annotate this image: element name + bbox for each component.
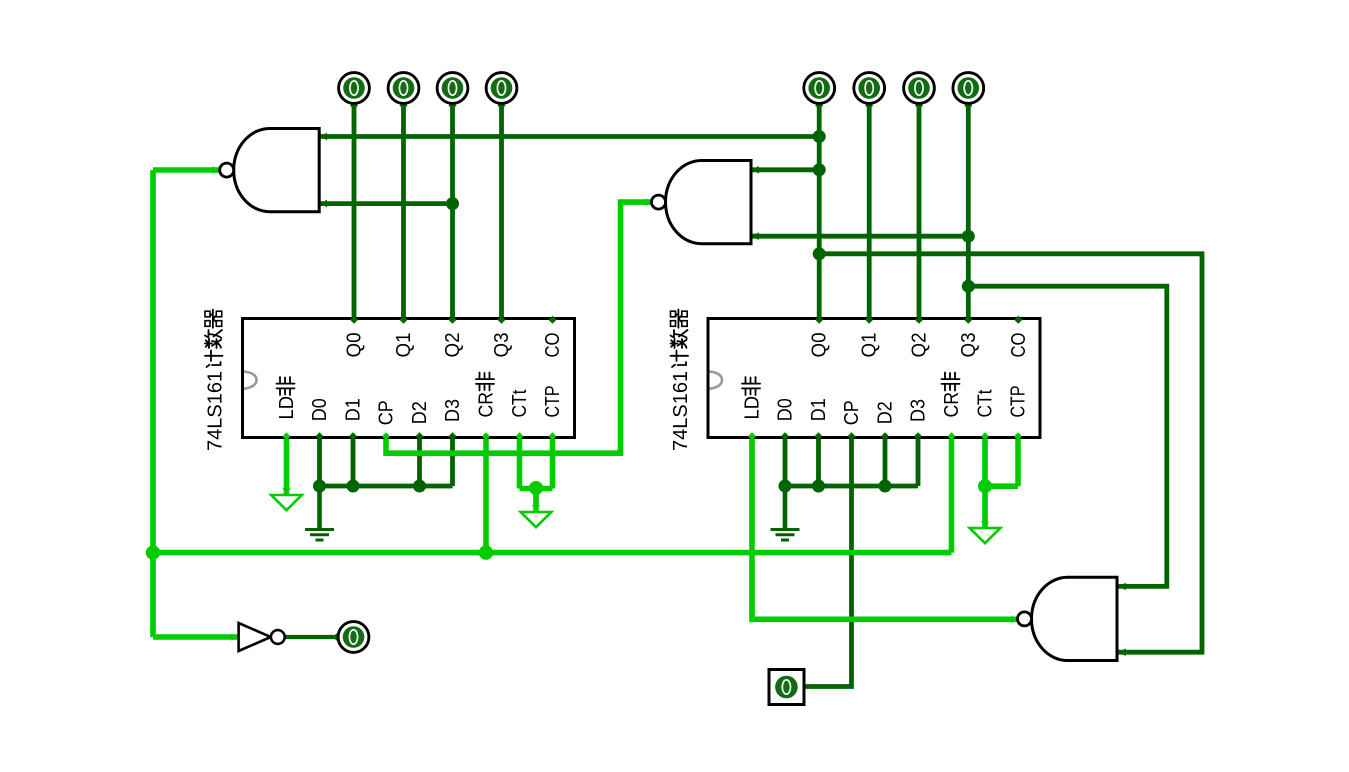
wire gate G2 input B to Q3 of U2	[751, 234, 968, 239]
wire stub into indicator P3 Q2-U1	[449, 102, 457, 110]
pin stub top U2 #0	[815, 316, 823, 324]
pin stub bottom U2 #0	[748, 432, 756, 440]
pin label Q2 (U1)	[442, 333, 464, 358]
output indicator P2 Q1-U1 (value 0)	[388, 73, 419, 104]
pin label D2 (U1)	[409, 401, 431, 424]
wire stub into indicator P8 Q3-U2	[964, 102, 972, 110]
pin label Q1 (U2)	[859, 333, 881, 358]
svg-text:D3: D3	[908, 399, 930, 422]
pin label Q1 (U1)	[393, 333, 415, 358]
svg-text:CTP: CTP	[1008, 386, 1030, 418]
wire trunk to inverter G4 input	[153, 634, 239, 640]
svg-text:CO: CO	[542, 333, 564, 358]
pin label D0 (U2)	[775, 398, 797, 421]
pin label D3 (U1)	[442, 399, 464, 422]
wire stub into indicator P6 Q1-U2	[865, 102, 873, 110]
pin stub bottom U2 #2	[815, 432, 823, 440]
pin stub top U1 #2	[449, 316, 457, 324]
wire CTt pin U2 down to low symbol	[982, 438, 988, 530]
svg-text:Q0: Q0	[809, 333, 831, 358]
svg-text:CO: CO	[1008, 333, 1030, 358]
pin stub bottom U2 #5	[914, 432, 922, 440]
pin label D3 (U2)	[908, 399, 930, 422]
wire CTt-CTP tie U1	[520, 486, 553, 492]
pin stub bottom U2 #3	[848, 432, 856, 440]
junction D0 bus U1	[313, 480, 326, 493]
wire D2 pin U2 down	[883, 438, 888, 487]
74LS161 counter U1 body	[243, 319, 575, 438]
constant-low symbol T2 at CTt/CTP of U1	[521, 512, 552, 527]
pin stub bottom U1 #7	[516, 432, 524, 440]
svg-text:D0: D0	[309, 398, 331, 421]
svg-text:D0: D0	[775, 398, 797, 421]
svg-text:CTt: CTt	[975, 389, 997, 417]
pin label Q3 (U2)	[958, 333, 980, 358]
pin stub top U2 #3	[964, 316, 972, 324]
wire Q0 chip U1 to indicator	[352, 104, 357, 319]
wire left trunk (G1 output down to inverter)	[150, 170, 156, 637]
pin stub bottom U2 #6	[948, 432, 956, 440]
output indicator P5 Q0-U2 (value 0)	[804, 73, 835, 104]
wire D-bus U2	[785, 484, 918, 489]
wire Q2 chip U1 to indicator	[450, 104, 455, 319]
pin label D1 (U1)	[343, 398, 365, 421]
wire D0 pin U2 down	[783, 438, 788, 487]
pin label D0 (U1)	[309, 398, 331, 421]
pin label CTP (U1)	[542, 386, 564, 418]
junction D1 bus U1	[347, 480, 360, 493]
junction Q3-U2 / G3 input A tap	[962, 280, 975, 293]
pin stub top U1 #1	[400, 316, 408, 324]
wire Q1 chip U1 to indicator	[401, 104, 406, 319]
nand gate G2 output bubble	[652, 195, 666, 209]
svg-text:Q2: Q2	[442, 333, 464, 358]
junction CR-U1 / clear bus	[479, 545, 493, 559]
ground GND2 (U2 data inputs)	[771, 486, 800, 540]
pin stub bottom U1 #5	[449, 432, 457, 440]
pin stub top U1 #3	[498, 316, 506, 324]
pin label CTt (U2)	[975, 389, 997, 417]
pin label D1 (U2)	[808, 398, 830, 421]
pin label Q2 (U2)	[909, 333, 931, 358]
svg-text:74LS161: 74LS161	[205, 371, 227, 451]
input switch S1 (value 0)	[769, 670, 804, 705]
output indicator P4 Q3-U1 (value 0)	[486, 73, 517, 104]
junction D2 bus U1	[413, 480, 426, 493]
wire stub into indicator P7 Q2-U2	[915, 102, 923, 110]
inverter G4 body	[239, 623, 271, 651]
pin stub bottom U1 #6	[482, 432, 490, 440]
pin label Q3 (U1)	[491, 333, 513, 358]
wire Q1 chip U2 to indicator	[867, 104, 872, 319]
pin label Q0 (U1)	[344, 333, 366, 358]
svg-text:Q3: Q3	[491, 333, 513, 358]
wire gate G2 input A to Q0 of U2	[751, 167, 819, 172]
wire gate G1 output to left trunk	[153, 167, 220, 173]
svg-text:Q1: Q1	[859, 333, 881, 358]
output indicator P6 Q1-U2 (value 0)	[854, 73, 885, 104]
output indicator P7 Q2-U2 (value 0)	[904, 73, 935, 104]
wire CR pin U2 to clear bus	[949, 438, 955, 553]
pin label LD (U1)	[276, 377, 298, 420]
wire D3 pin U1 down	[450, 438, 455, 487]
wire gate G2 output to CP pin U1	[386, 202, 652, 453]
svg-text:D1: D1	[343, 398, 365, 421]
pin stub bottom U2 #8	[1014, 432, 1022, 440]
wire gate G1 input A to Q0 of U2	[319, 134, 819, 139]
pin stub top U2 #4	[1014, 316, 1022, 324]
junction D1 bus U2	[812, 480, 825, 493]
wire Q0 chip U2 to indicator	[817, 104, 822, 319]
pin stub bottom U2 #7	[981, 432, 989, 440]
wire CR pin U1 to clear bus	[483, 438, 489, 553]
wire Q3 chip U1 to indicator	[499, 104, 504, 319]
svg-text:D2: D2	[875, 401, 897, 424]
pin stub top U1 #4	[549, 316, 557, 324]
wire gate G1 input B to Q2 of U1	[319, 201, 452, 206]
pin stub bottom U1 #1	[316, 432, 324, 440]
pin label D2 (U2)	[875, 401, 897, 424]
svg-text:CP: CP	[376, 400, 398, 425]
74LS161 counter U1 notch	[244, 372, 257, 389]
wire Q0 of U2 to gate G3 input B (right trunk)	[819, 254, 1202, 652]
pin stub bottom U1 #2	[349, 432, 357, 440]
wire CTP pin U2 down	[1015, 438, 1021, 487]
pin label CO (U2)	[1008, 333, 1030, 358]
pin label CR (U2)	[941, 373, 963, 418]
junction Q0-U2 / G3 input B tap	[813, 247, 826, 260]
svg-text:LD: LD	[742, 396, 764, 420]
svg-text:Q2: Q2	[909, 333, 931, 358]
wire CP pin U2 to input switch S1	[803, 438, 852, 687]
wire CTP pin U1 down	[550, 438, 556, 489]
wire D0 pin U1 down	[317, 438, 322, 487]
wire D3 pin U2 down	[916, 438, 921, 487]
wire stub into indicator P4 Q3-U1	[498, 102, 506, 110]
svg-text:CP: CP	[841, 400, 863, 425]
pin stub bottom U1 #4	[416, 432, 424, 440]
pin stub bottom U2 #4	[881, 432, 889, 440]
pin stub top U2 #1	[865, 316, 873, 324]
svg-text:CTt: CTt	[509, 389, 531, 417]
junction Q0-U2 / G1 input A	[813, 130, 826, 143]
output indicator P9 at inverter output (value 0)	[338, 622, 369, 653]
output indicator P3 Q2-U1 (value 0)	[437, 73, 468, 104]
constant-low symbol T3 at CTt/CTP of U2	[970, 528, 1001, 543]
constant-low symbol T1 at LD of U1	[271, 495, 302, 510]
pin label CR (U1)	[476, 373, 498, 418]
wire D1 pin U2 down	[816, 438, 821, 487]
junction Q0-U2 / G2 input A	[813, 163, 826, 176]
junction CTt-CTP tie U1	[529, 481, 543, 495]
junction trunk / clear bus	[146, 545, 160, 559]
wire inverter G4 output to indicator P9	[285, 635, 338, 639]
wire CTt pin U1 down	[517, 438, 523, 489]
svg-text:Q3: Q3	[958, 333, 980, 358]
pin label CP (U2)	[841, 400, 863, 425]
wire D-bus U1	[320, 484, 453, 489]
pin label Q0 (U2)	[809, 333, 831, 358]
nand gate G3 body	[1032, 577, 1118, 660]
output indicator P8 Q3-U2 (value 0)	[953, 73, 984, 104]
svg-text:CTP: CTP	[542, 386, 564, 418]
pin stub top U1 #0	[350, 316, 358, 324]
wire tie U1 to low symbol	[533, 488, 539, 513]
junction CTt-CTP tie U2	[978, 479, 992, 493]
nand gate G2 body	[666, 161, 751, 244]
74LS161 counter U2 notch	[710, 372, 723, 389]
svg-text:74LS161: 74LS161	[670, 371, 692, 451]
inverter G4 output bubble	[271, 630, 285, 644]
pin stub top U2 #2	[915, 316, 923, 324]
svg-text:D2: D2	[409, 401, 431, 424]
nand gate G3 output bubble	[1018, 612, 1032, 626]
pin label LD (U2)	[742, 377, 764, 420]
wire CTt-CTP tie U2	[985, 483, 1018, 489]
svg-text:Q1: Q1	[393, 333, 415, 358]
wire gate G3 output to LD pin U2	[752, 438, 1018, 620]
pin stub bottom U1 #8	[549, 432, 557, 440]
output indicator P1 Q0-U1 (value 0)	[339, 73, 370, 104]
chip label 74LS161计数器 (U1)	[205, 310, 227, 452]
junction D0 bus U2	[779, 480, 792, 493]
chip label 74LS161计数器 (U2)	[670, 310, 692, 452]
svg-text:LD: LD	[276, 396, 298, 420]
pin label CP (U1)	[376, 400, 398, 425]
wire Q3 chip U2 to indicator	[966, 104, 971, 319]
nand gate G1 body	[234, 129, 319, 212]
junction Q2-U1 / G1 input B	[446, 197, 459, 210]
junction Q3-U2 / G2 input B	[962, 230, 975, 243]
svg-text:CR: CR	[941, 392, 963, 418]
svg-text:D1: D1	[808, 398, 830, 421]
wire clear bus (to CR pins)	[153, 550, 952, 556]
pin label CTP (U2)	[1008, 386, 1030, 418]
pin label CTt (U1)	[509, 389, 531, 417]
74LS161 counter U2 body	[708, 319, 1040, 438]
wire Q2 chip U2 to indicator	[917, 104, 922, 319]
ground GND1 (U1 data inputs)	[305, 486, 334, 540]
pin label CO (U1)	[542, 333, 564, 358]
wire stub into indicator P2 Q1-U1	[400, 102, 408, 110]
pin stub bottom U1 #3	[382, 432, 390, 440]
wire D2 pin U1 down	[417, 438, 422, 487]
junction D2 bus U2	[879, 480, 892, 493]
wire Q3 of U2 to gate G3 input A (right trunk)	[968, 286, 1167, 586]
svg-text:D3: D3	[442, 399, 464, 422]
wire stub into indicator P1 Q0-U1	[350, 102, 358, 110]
nand gate G1 output bubble	[220, 163, 234, 177]
pin stub bottom U2 #1	[781, 432, 789, 440]
svg-text:Q0: Q0	[344, 333, 366, 358]
svg-text:CR: CR	[476, 392, 498, 418]
wire LD pin U1 to low symbol	[284, 438, 290, 497]
wire stub into indicator P5 Q0-U2	[815, 102, 823, 110]
pin stub bottom U1 #0	[283, 432, 291, 440]
wire D1 pin U1 down	[351, 438, 356, 487]
